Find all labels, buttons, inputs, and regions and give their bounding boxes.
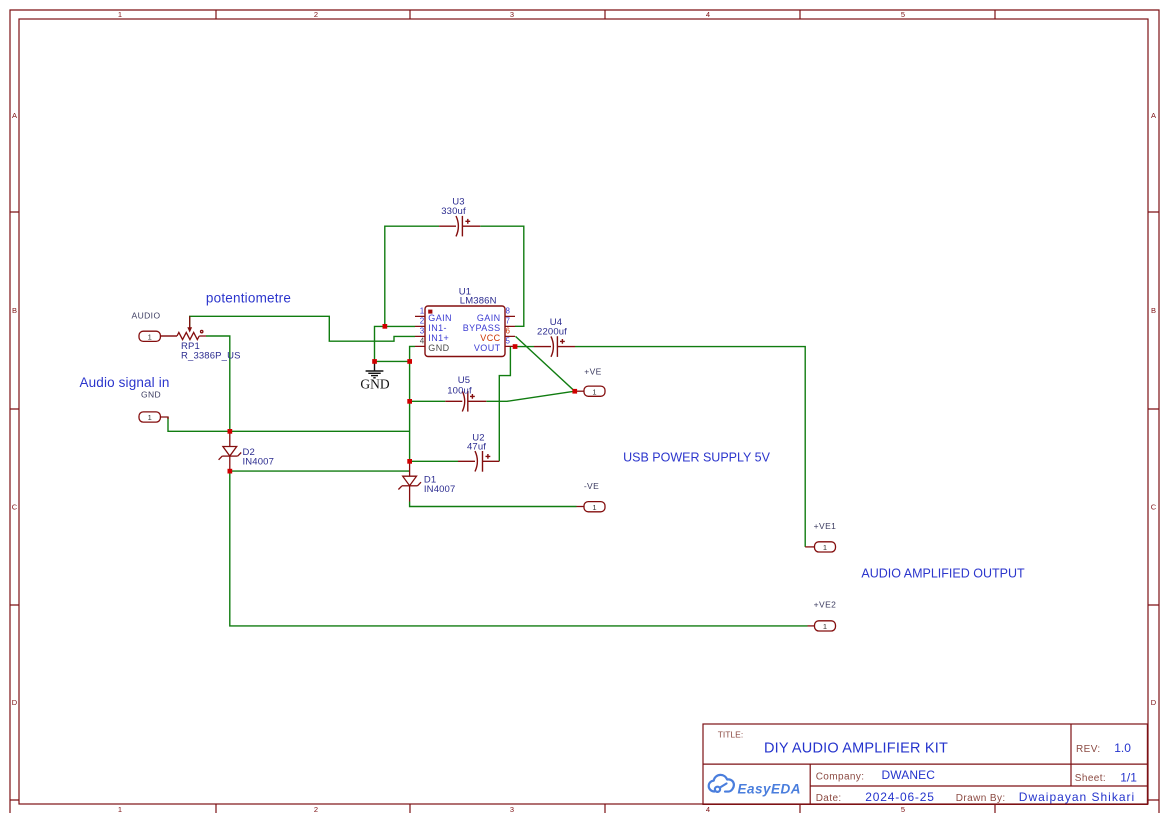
svg-text:2: 2	[420, 317, 425, 326]
junction GND bus / U2 row / D1	[407, 459, 412, 464]
svg-text:C: C	[1151, 503, 1157, 512]
svg-text:TITLE:: TITLE:	[718, 730, 744, 740]
connector +VE1	[805, 542, 835, 552]
svg-text:EasyEDA: EasyEDA	[738, 782, 802, 797]
capacitor U2	[458, 451, 499, 472]
svg-text:USB POWER SUPPLY 5V: USB POWER SUPPLY 5V	[623, 450, 770, 464]
capacitor U4	[534, 336, 575, 357]
capacitor U5	[445, 391, 486, 412]
potentiometer RP1	[160, 316, 206, 339]
wire U3 feedback loop	[385, 226, 524, 326]
svg-text:IN1+: IN1+	[428, 333, 449, 343]
ground	[366, 363, 384, 378]
svg-text:R_3386P_US: R_3386P_US	[181, 351, 241, 362]
svg-text:330uf: 330uf	[441, 206, 466, 217]
svg-text:7: 7	[506, 317, 511, 326]
svg-text:AUDIO AMPLIFIED OUTPUT: AUDIO AMPLIFIED OUTPUT	[861, 566, 1025, 580]
junction D2 anode	[228, 429, 233, 434]
wire U2 to pin5	[499, 347, 510, 462]
svg-text:5: 5	[506, 337, 511, 346]
RP1 labels	[181, 341, 241, 362]
U3 labels	[441, 197, 466, 218]
svg-text:IN1-: IN1-	[428, 323, 447, 333]
junction at ground symbol	[372, 359, 377, 364]
connector -VE	[577, 502, 606, 512]
svg-text:1: 1	[823, 543, 827, 552]
svg-text:3: 3	[420, 327, 425, 336]
svg-text:A: A	[12, 111, 17, 120]
wire audio-gnd horizontal	[168, 417, 410, 431]
svg-text:Audio signal in: Audio signal in	[79, 375, 169, 390]
title block	[703, 724, 1147, 804]
op-amp U1 LM386N	[415, 306, 515, 357]
svg-text:GAIN: GAIN	[477, 313, 501, 323]
EasyEDA logo	[709, 775, 734, 792]
svg-text:GND: GND	[428, 343, 449, 353]
svg-text:LM386N: LM386N	[460, 296, 497, 307]
wire wiper to pin3	[190, 316, 415, 341]
svg-text:1: 1	[148, 332, 152, 341]
wire D1 to -VE	[410, 502, 577, 507]
connector +VE	[575, 386, 605, 396]
D1 labels	[424, 475, 456, 496]
svg-text:1: 1	[592, 387, 596, 396]
svg-text:4: 4	[706, 805, 710, 813]
wire VCC diagonal to +VE	[516, 336, 575, 391]
svg-text:REV:: REV:	[1076, 744, 1101, 755]
wire main vertical bus	[410, 346, 415, 461]
wire D2 to +VE2	[230, 471, 808, 626]
svg-text:2: 2	[314, 10, 318, 19]
svg-text:1/1: 1/1	[1120, 771, 1137, 785]
svg-text:1.0: 1.0	[1114, 741, 1131, 755]
svg-text:Company:: Company:	[816, 772, 865, 783]
capacitor U3	[439, 216, 480, 237]
svg-text:1: 1	[823, 622, 827, 631]
svg-text:DIY AUDIO AMPLIFIER KIT: DIY AUDIO AMPLIFIER KIT	[764, 740, 948, 756]
connector +VE2	[808, 621, 836, 631]
D2 labels	[243, 447, 275, 468]
U1 pin numbers	[420, 307, 511, 346]
svg-text:GND: GND	[360, 377, 389, 392]
svg-text:+VE: +VE	[584, 366, 602, 376]
svg-text:100uf: 100uf	[447, 385, 472, 396]
svg-text:VCC: VCC	[480, 333, 500, 343]
svg-text:Drawn By:: Drawn By:	[956, 793, 1006, 804]
svg-text:3: 3	[510, 10, 514, 19]
svg-text:3: 3	[510, 805, 514, 813]
svg-text:BYPASS: BYPASS	[463, 323, 501, 333]
diode D2	[219, 431, 242, 471]
svg-text:8: 8	[506, 307, 511, 316]
svg-text:DWANEC: DWANEC	[882, 768, 936, 782]
junction at pin2 / U3 drop	[383, 324, 388, 329]
wire U5 row	[410, 391, 575, 401]
U1 pin names	[428, 313, 500, 353]
svg-text:1: 1	[148, 413, 152, 422]
svg-text:+VE1: +VE1	[814, 521, 837, 531]
svg-text:Dwaipayan Shikari: Dwaipayan Shikari	[1019, 790, 1135, 804]
junction GND bus / U5 row	[407, 399, 412, 404]
connector AUDIO	[139, 331, 177, 341]
svg-text:5: 5	[901, 805, 905, 813]
U2 labels	[467, 433, 486, 453]
svg-text:2024-06-25: 2024-06-25	[865, 790, 934, 804]
wire D2 bottom to D1	[230, 470, 410, 472]
wire U2 row	[410, 460, 458, 462]
svg-text:Sheet:: Sheet:	[1075, 773, 1106, 784]
svg-text:B: B	[1151, 306, 1156, 315]
junction +VE node	[572, 389, 577, 394]
svg-text:1: 1	[118, 10, 122, 19]
svg-text:A: A	[1151, 111, 1156, 120]
svg-text:Date:: Date:	[816, 793, 842, 804]
svg-text:2200uf: 2200uf	[537, 327, 567, 338]
svg-text:6: 6	[506, 327, 511, 336]
svg-text:1: 1	[118, 805, 122, 813]
svg-text:-VE: -VE	[584, 481, 599, 491]
svg-text:1: 1	[592, 503, 596, 512]
svg-text:C: C	[12, 503, 18, 512]
wire VOUT output	[515, 347, 805, 547]
wire pin2 to ground	[375, 326, 416, 361]
svg-text:IN4007: IN4007	[243, 457, 275, 468]
svg-text:B: B	[12, 306, 17, 315]
U4 labels	[537, 317, 567, 338]
U5 labels	[447, 375, 472, 396]
svg-text:IN4007: IN4007	[424, 484, 456, 495]
connector GND input	[139, 412, 168, 422]
svg-text:2: 2	[314, 805, 318, 813]
svg-text:D: D	[1151, 698, 1157, 707]
wire RP1 right terminal down	[206, 336, 230, 431]
U1 reference labels	[459, 287, 497, 307]
junction D2 cathode	[228, 469, 233, 474]
diode D1	[398, 461, 421, 501]
svg-text:GND: GND	[141, 390, 161, 400]
svg-text:1: 1	[420, 307, 425, 316]
svg-text:VOUT: VOUT	[474, 343, 501, 353]
junction VOUT pin5	[513, 344, 518, 349]
svg-text:4: 4	[420, 337, 425, 346]
svg-text:5: 5	[901, 10, 905, 19]
svg-text:D: D	[12, 698, 18, 707]
svg-text:potentiometre: potentiometre	[206, 290, 291, 305]
svg-text:GAIN: GAIN	[428, 313, 452, 323]
svg-text:+VE2: +VE2	[814, 600, 837, 610]
svg-text:4: 4	[706, 10, 710, 19]
svg-text:47uf: 47uf	[467, 441, 486, 452]
svg-text:AUDIO: AUDIO	[132, 311, 161, 321]
junction GND bus top	[407, 359, 412, 364]
